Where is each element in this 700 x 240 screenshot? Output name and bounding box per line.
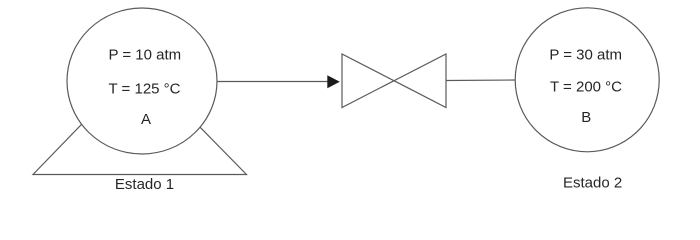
svg-text:Estado 2: Estado 2 <box>563 174 622 191</box>
vessel A (Estado 1 tank) <box>67 8 217 154</box>
wire from valve to vessel B <box>446 79 516 82</box>
svg-text:P = 30 atm: P = 30 atm <box>549 47 622 64</box>
svg-text:P = 10 atm: P = 10 atm <box>108 47 181 64</box>
valve V1 (right bowtie triangle) <box>394 54 446 108</box>
valve V1 (left bowtie triangle) <box>342 54 394 108</box>
wire from vessel A to valve <box>217 81 328 83</box>
svg-text:T = 125 °C: T = 125 °C <box>108 80 180 97</box>
svg-text:B: B <box>581 109 591 126</box>
svg-text:Estado 1: Estado 1 <box>115 176 174 193</box>
arrowhead <box>327 75 340 88</box>
svg-text:T = 200 °C: T = 200 °C <box>550 78 622 95</box>
vessel B (Estado 2 tank) <box>515 8 659 152</box>
svg-text:A: A <box>141 111 151 128</box>
support triangle under tank A <box>33 65 247 175</box>
